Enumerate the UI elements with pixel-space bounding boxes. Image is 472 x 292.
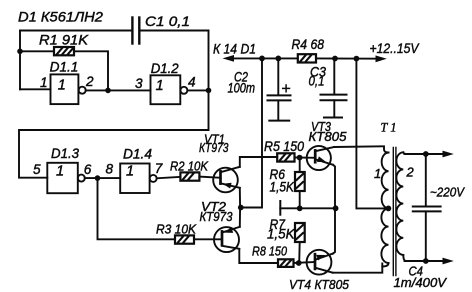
svg-text:4: 4 [188,75,196,90]
wire D1.1 input [20,88,51,90]
arrow K14 left [223,55,263,62]
wire common node horizontal [280,207,335,209]
wire right vertical C1 to feedback [208,31,210,131]
wire R1 right to pin2 net [74,51,108,90]
resistor R3 [175,235,194,243]
svg-text:2: 2 [85,74,94,89]
svg-text:7: 7 [155,161,163,176]
resistor R1 [20,47,74,55]
wire VT3 emitter down [333,165,335,209]
resistor R8 [278,259,294,267]
svg-text:К 14 D1: К 14 D1 [213,42,256,57]
svg-text:D1.4: D1.4 [123,146,152,161]
transformer primary winding [381,153,388,267]
svg-text:R4 68: R4 68 [292,37,325,52]
svg-text:~220V: ~220V [430,185,465,200]
wire pin6 to pin8 [85,177,120,179]
svg-text:КТ973: КТ973 [200,210,233,224]
svg-text:1: 1 [58,78,66,94]
node R1/pin2 junction [105,88,111,94]
wire +12 to center tap [356,59,388,209]
wire R2 to VT1 base [199,177,220,178]
wire VT2 collector to R8 [239,249,278,263]
svg-text:1: 1 [156,78,164,94]
svg-text:D1.3: D1.3 [51,146,79,161]
svg-text:D1 К561ЛН2: D1 К561ЛН2 [18,10,103,26]
arrow +12V right [376,55,387,62]
wire feedback horizontal [19,130,209,178]
resistor R4 [298,54,316,62]
capacitor C2 [268,58,291,120]
resistor R2 [180,172,199,180]
svg-text:R5 150: R5 150 [264,139,304,154]
svg-text:R2 10K: R2 10K [170,159,209,174]
svg-text:D1.1: D1.1 [50,60,79,75]
wire R3 to VT2 base [194,238,222,240]
node rail C2 branch1 [259,56,265,62]
node rail C2 top [275,56,281,62]
transistor VT1 [213,167,240,193]
capacitor C4 [413,154,441,261]
transistor VT2 [214,227,240,252]
wire secondary top output [405,153,450,155]
transformer core [393,148,396,276]
resistor R5 [277,153,294,161]
wire top C1 right [140,30,209,32]
svg-text:1,5K: 1,5K [270,180,295,195]
common bar terminal [279,201,281,215]
wire VT4 collector to winding bottom [333,264,383,273]
svg-text:R8 150: R8 150 [252,244,288,259]
svg-text:КТ973: КТ973 [199,141,229,155]
wire R8 to VT4 base [294,262,316,263]
svg-text:100m: 100m [228,81,256,96]
node R6/R7 junction [297,205,303,211]
wire D1.3out down to R3 [98,178,176,239]
wire left vertical node A [19,31,21,90]
node C4 top [423,151,429,157]
wire VT3 collector to winding top [334,146,389,152]
wire pin2 to pin3 [86,89,151,91]
svg-text:6: 6 [84,162,92,177]
svg-text:1,5K: 1,5K [267,227,295,242]
node VT1/VT2 emitter junction [238,205,244,211]
node C4 bottom [423,258,429,264]
node center tap [386,206,392,212]
svg-text:1: 1 [40,75,48,90]
svg-text:КТ805: КТ805 [309,130,348,144]
wire emitters to VT4 [333,208,335,253]
node rail C3 top [332,56,338,62]
wire secondary bottom output [405,260,450,262]
svg-text:D1.2: D1.2 [151,61,179,76]
svg-text:+12..15V: +12..15V [370,41,421,56]
wire pin7 to R2 [157,177,181,178]
node R5/R6 junction [297,155,303,161]
svg-text:1: 1 [374,166,381,181]
svg-text:3: 3 [135,76,143,91]
transistor VT4 [307,250,333,275]
svg-text:Т 1: Т 1 [381,121,397,135]
svg-text:VT4 КТ805: VT4 КТ805 [289,277,350,292]
capacitor C1 [132,18,139,44]
wire top C1 left [20,30,132,32]
node D1.3 output junction [95,175,101,181]
wire pin4 to vertical [187,89,208,91]
node emitters junction [333,205,339,211]
wire emitter node to +12 branch [241,58,262,207]
wire VT2 emitter up [239,208,241,227]
capacitor C3 [321,59,347,118]
gate D1.1 [51,74,86,104]
arrow output top [443,151,454,158]
gate D1.2 [151,75,188,104]
resistor R6 [295,158,305,209]
svg-text:5: 5 [33,162,41,177]
wire rail R4 to arrow [316,57,382,59]
wire VT1 emitter down [239,188,241,208]
node rail tap branch [354,56,360,62]
transformer secondary winding [396,152,406,261]
node R1 left junction [17,49,23,55]
wire R5 to VT3 base [295,157,316,159]
svg-text:C1 0,1: C1 0,1 [145,14,190,30]
svg-text:R3 10K: R3 10K [156,221,197,236]
svg-text:2: 2 [406,165,415,180]
gate D1.3 [47,163,85,193]
gate D1.4 [120,164,157,194]
node pin4 junction [206,88,212,94]
wire VT1 collector to R5 [240,157,277,167]
svg-text:0,1: 0,1 [309,74,325,89]
transistor VT3 [307,146,334,170]
node R7/R8 junction [296,260,302,266]
svg-text:1: 1 [56,163,64,179]
arrow output bottom [443,258,454,265]
resistor R7 [295,223,305,263]
svg-text:1m/400V: 1m/400V [394,276,448,290]
wire rail to R4 [262,57,298,59]
svg-text:1: 1 [126,164,134,180]
svg-text:8: 8 [106,161,114,176]
